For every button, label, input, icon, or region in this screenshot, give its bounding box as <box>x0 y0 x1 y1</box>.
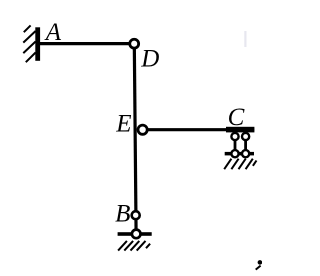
wire member A-D <box>38 42 134 45</box>
hinge E <box>138 125 147 134</box>
roller support at C: ground bar <box>225 152 254 156</box>
svg-text:C: C <box>228 104 245 131</box>
pin support at B: support circle <box>132 230 141 239</box>
roller support at C: bottom-right roller circle <box>242 150 249 157</box>
roller support at C: right link <box>244 136 247 153</box>
svg-text:A: A <box>44 19 62 46</box>
hinge B <box>132 211 140 219</box>
cropped glyph fragment bottom-right corner <box>256 260 263 270</box>
roller support at C: top-right roller circle <box>242 133 249 140</box>
hinge D <box>130 39 139 48</box>
pin support at B: ground bar <box>118 232 152 236</box>
roller support at C: ground hatching <box>224 159 256 170</box>
wire member E-C <box>143 128 255 131</box>
svg-text:D: D <box>140 45 159 72</box>
faint artifact top right <box>244 31 246 47</box>
fixed support at A (wall bar + hatching) <box>23 25 40 62</box>
svg-text:B: B <box>115 200 130 227</box>
wire member D-E-B vertical <box>134 44 136 234</box>
svg-text:E: E <box>115 111 131 138</box>
roller support at C: top plate <box>226 127 254 133</box>
roller support at C: left link <box>234 136 237 153</box>
pin support at B: ground hatching <box>118 241 150 251</box>
roller support at C: top-left roller circle <box>231 133 238 140</box>
roller support at C: bottom-left roller circle <box>231 150 238 157</box>
